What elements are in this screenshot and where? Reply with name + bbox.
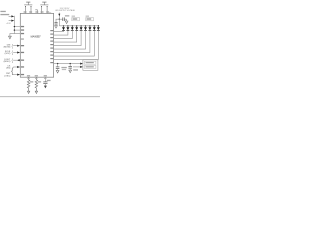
capacitor C3 xyxy=(57,63,58,64)
svg-text:{: { xyxy=(11,58,13,63)
switch SW1 pushbutton xyxy=(24,2,32,13)
wire supply input 2 xyxy=(9,20,15,22)
wire port P15 to LED D4 xyxy=(54,31,77,42)
svg-text:+3.3V: +3.3V xyxy=(6,23,12,25)
pin names left inside xyxy=(21,26,24,27)
svg-text:{: { xyxy=(11,67,14,76)
LED D7 xyxy=(89,26,91,28)
ground below R2 xyxy=(35,91,37,93)
wire signal DOUT xyxy=(13,59,20,61)
wire port P14 to LED D3 xyxy=(54,31,73,39)
wire port P19 to LED D8 xyxy=(54,31,95,56)
svg-text:{: { xyxy=(11,50,13,55)
label R1 value xyxy=(30,81,33,82)
wire LED anode rail xyxy=(59,25,98,27)
svg-text:LED SUPPLY VOLTAGE: LED SUPPLY VOLTAGE xyxy=(55,9,75,12)
svg-text:(MISO): (MISO) xyxy=(4,61,11,63)
wire supply input 1 xyxy=(9,15,15,17)
label C2 value 0.1uF xyxy=(65,15,69,16)
capacitor C2 supply decoupling xyxy=(59,18,62,20)
LED D6 xyxy=(85,26,87,28)
wire signal SCLK xyxy=(13,52,20,54)
label supply input 1 xyxy=(0,11,5,12)
ground below C4 xyxy=(69,70,72,73)
label box LED group 1 xyxy=(72,18,80,21)
wire signal CS xyxy=(13,66,20,68)
label C4 value xyxy=(73,69,78,70)
LED D3 xyxy=(71,26,73,28)
wire port P20 to LED D9 xyxy=(54,31,99,60)
module box right xyxy=(83,60,98,71)
wire: top pin stub P4 xyxy=(35,10,37,14)
wire port P13 to LED D2 xyxy=(54,31,68,35)
resistor R1 xyxy=(27,77,30,91)
LED D9 xyxy=(97,26,99,28)
svg-text:(MOSI): (MOSI) xyxy=(4,46,11,48)
capacitor C5 supply bulk xyxy=(56,19,59,22)
resistor R2 xyxy=(35,77,38,91)
node LED supply arrow xyxy=(58,13,60,26)
wire GND pin xyxy=(10,34,20,37)
LED D4 xyxy=(76,26,78,28)
wire V+ pin 2 xyxy=(14,29,20,31)
pin names bottom edge xyxy=(27,75,30,76)
LED D5 xyxy=(80,26,82,28)
wire port P17 to LED D6 xyxy=(54,31,86,49)
label GREEN LEDs xyxy=(86,16,89,17)
label C3 value xyxy=(61,67,66,68)
label R2 value xyxy=(38,81,41,82)
ground below C5 xyxy=(55,26,58,29)
svg-text:MAX6957: MAX6957 xyxy=(31,36,42,39)
pin numbers along top edge xyxy=(24,11,27,12)
ground below C3 xyxy=(56,70,59,73)
wire: footer separator line xyxy=(0,96,100,98)
ground left xyxy=(9,36,12,39)
svg-text:(SCK): (SCK) xyxy=(5,53,11,55)
pin name N.C. left xyxy=(21,38,24,39)
wire port P12 to LED D1 xyxy=(54,30,64,33)
IC U1 MAX6957 body xyxy=(20,13,53,77)
wire supply rail left xyxy=(13,16,15,34)
LED D8 xyxy=(93,26,95,28)
ground below R1 xyxy=(27,91,29,93)
wire V+ pin 1 xyxy=(14,26,20,28)
pin numbers below bottom edge xyxy=(27,78,29,79)
pin names right inside xyxy=(50,30,53,31)
wire signal to module xyxy=(73,66,83,68)
capacitor C1 bottom xyxy=(44,77,46,82)
svg-text:{: { xyxy=(11,43,13,48)
wire signal DIN xyxy=(13,45,20,47)
label RED LEDs xyxy=(72,16,75,17)
svg-text:(SS): (SS) xyxy=(6,68,10,70)
wire port P16 to LED D5 xyxy=(54,31,82,46)
ground below C1 xyxy=(44,86,47,89)
svg-text:(OSC): (OSC) xyxy=(4,75,10,77)
switch SW2 pushbutton xyxy=(40,2,48,13)
LED D2 xyxy=(67,26,69,28)
ground right of C2 xyxy=(65,21,68,24)
LED D1 xyxy=(63,26,65,28)
wire port P18 to LED D7 xyxy=(54,31,90,53)
wire signal RST xyxy=(13,74,20,76)
label C1 value xyxy=(47,80,51,81)
label box LED group 2 xyxy=(86,18,94,21)
wire V+ rail right xyxy=(54,63,83,65)
capacitor C4 xyxy=(70,63,71,64)
